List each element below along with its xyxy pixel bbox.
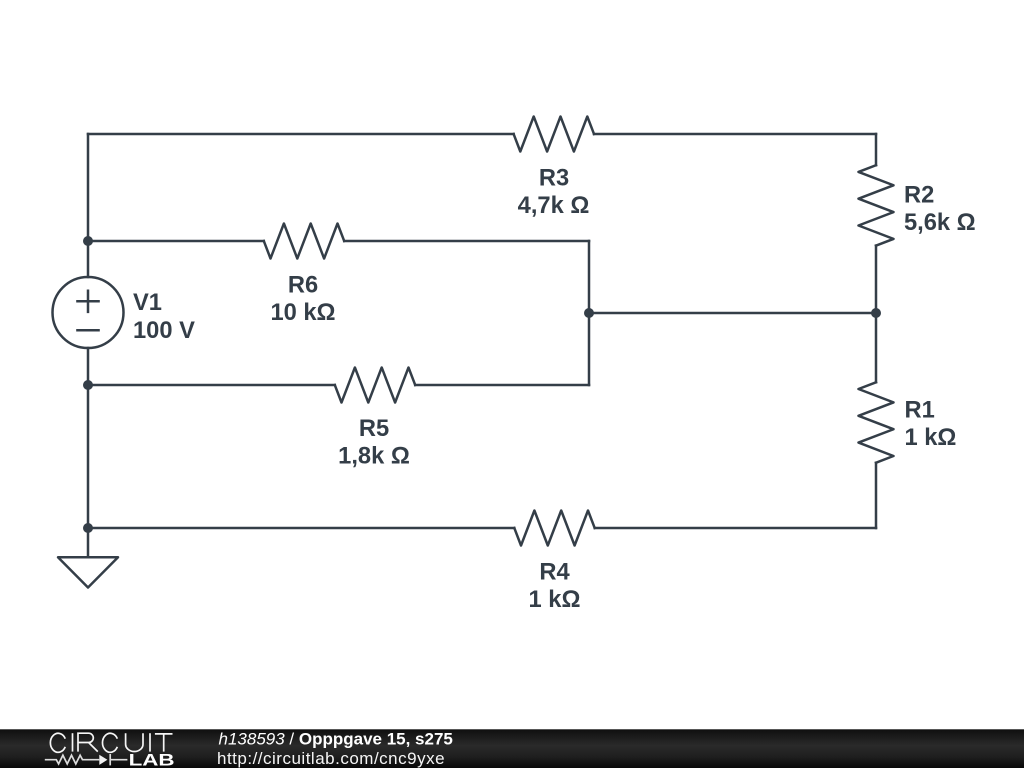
svg-text:R3: R3	[539, 165, 569, 191]
wire: right rail R1 to bottom rail	[875, 463, 878, 528]
wire: bottom rail left segment	[88, 527, 514, 530]
wire: top rail right segment	[594, 133, 876, 136]
wire: R6 row right segment	[344, 240, 589, 243]
wire: bottom rail right segment	[595, 527, 876, 530]
logo glyph: resistor + diode	[45, 754, 128, 765]
svg-text:10 kΩ: 10 kΩ	[270, 300, 335, 326]
svg-text:R1: R1	[905, 397, 935, 423]
logo wordmark LAB	[129, 752, 175, 768]
wire: R6 row left segment	[88, 240, 264, 243]
svg-text:R4: R4	[539, 559, 570, 585]
logo wordmark CIRCUIT (drawn)	[50, 733, 172, 752]
svg-text:1,8k Ω: 1,8k Ω	[338, 444, 410, 470]
resistor R2	[859, 165, 894, 245]
wire: middle vertical rail	[588, 241, 591, 385]
footer url text	[217, 749, 445, 768]
voltage source V1	[53, 277, 124, 348]
svg-text:LAB: LAB	[129, 752, 175, 768]
resistor R1	[859, 382, 894, 462]
wire: top rail left segment	[88, 133, 514, 136]
svg-text:1 kΩ: 1 kΩ	[529, 587, 581, 613]
resistor R5	[335, 368, 415, 403]
svg-text:1 kΩ: 1 kΩ	[905, 425, 957, 451]
node A: junction dot middle rail	[584, 308, 594, 318]
wire: left rail bottom (V1 bottom to ground)	[87, 348, 90, 557]
node B: junction dot right rail	[871, 308, 881, 318]
svg-text:R2: R2	[904, 182, 934, 208]
wire: left rail top (corner to V1 top)	[87, 134, 90, 277]
svg-text:http://circuitlab.com/cnc9yxe: http://circuitlab.com/cnc9yxe	[217, 749, 445, 768]
svg-text:100 V: 100 V	[133, 318, 195, 344]
wire: right rail top lead into R2	[875, 134, 878, 165]
wire: R5 row right segment	[415, 384, 589, 387]
svg-text:4,7k Ω: 4,7k Ω	[518, 193, 590, 219]
svg-text:h138593 / Opppgave 15, s275: h138593 / Opppgave 15, s275	[219, 730, 453, 749]
footer bar	[0, 729, 1024, 768]
svg-text:V1: V1	[133, 290, 162, 316]
resistor R4	[514, 511, 594, 546]
wire: R5 row left segment	[88, 384, 335, 387]
resistor R6	[264, 224, 344, 259]
ground	[58, 557, 118, 587]
wire: right rail from R2 to node B	[875, 246, 878, 313]
node: junction dot left rail / bottom rail	[83, 523, 93, 533]
svg-text:R5: R5	[359, 416, 389, 442]
footer title text	[219, 730, 453, 749]
resistor R3	[514, 117, 594, 152]
wire: right rail node B to R1	[875, 313, 878, 382]
svg-text:5,6k Ω: 5,6k Ω	[904, 210, 976, 236]
node: junction dot left rail / R5	[83, 380, 93, 390]
node: junction dot left rail / R6	[83, 236, 93, 246]
wire: node A to node B horizontal	[589, 312, 876, 315]
svg-text:R6: R6	[288, 272, 318, 298]
